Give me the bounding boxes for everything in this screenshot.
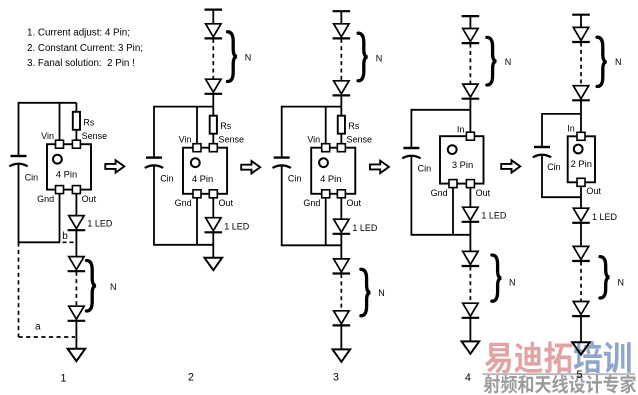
IC U5 "2 Pin" (circuit 5) xyxy=(567,123,601,196)
brace N (circuit 4 bottom) xyxy=(492,255,516,301)
svg-text:5: 5 xyxy=(577,369,583,381)
wire: bottom rail (circuit 3) xyxy=(281,244,342,246)
svg-text:3 Pin: 3 Pin xyxy=(452,159,473,170)
brace N (circuit 3 top) xyxy=(358,33,382,81)
svg-text:Sense: Sense xyxy=(347,135,373,145)
svg-text:Vin: Vin xyxy=(41,131,54,141)
svg-text:4 Pin: 4 Pin xyxy=(192,173,213,184)
capacitor Cin (circuit 5) xyxy=(533,147,561,172)
brace N (circuit 3 bottom) xyxy=(361,269,385,316)
wire: to ground (circuit 5) xyxy=(580,316,582,342)
arrow step 1 to 2 xyxy=(105,160,124,172)
wire: to ground (circuit 3) xyxy=(340,325,342,349)
wire: dashed left drop (circuit 1) xyxy=(18,242,20,337)
wire: top stub (circuit 3) xyxy=(340,11,342,24)
svg-text:b: b xyxy=(62,231,68,242)
wire: to ground (circuit 2) xyxy=(212,232,214,257)
svg-text:1 LED: 1 LED xyxy=(224,222,250,232)
wire: In riser (circuit 5) xyxy=(580,114,582,132)
svg-text:2. Constant Current: 3 Pin;: 2. Constant Current: 3 Pin; xyxy=(27,43,143,54)
svg-text:Out: Out xyxy=(476,188,491,198)
svg-text:Gnd: Gnd xyxy=(37,194,54,204)
svg-text:4: 4 xyxy=(465,372,471,384)
IC U4 "3 Pin" (circuit 4) xyxy=(431,125,491,199)
wire: into rail (circuit 3) xyxy=(340,95,342,106)
capacitor Cin (circuit 2) xyxy=(145,158,174,184)
svg-text:2 Pin: 2 Pin xyxy=(571,158,592,169)
wire: Vin riser (circuit 2) xyxy=(196,107,198,144)
arrow step 2 to 3 xyxy=(241,161,260,173)
wire: Cin to bottom rail (circuit 1) xyxy=(18,165,20,243)
wire: Gnd drop (circuit 3) xyxy=(325,198,327,246)
resistor Rs (circuit 1) xyxy=(73,103,95,141)
wire: circuit 1 top rail xyxy=(19,102,77,104)
note list (3 lines) xyxy=(27,28,143,70)
node a (circuit 1): dashed tap xyxy=(19,322,76,338)
LED D12 (circuit 4 top) xyxy=(463,29,478,42)
wire: circuit 2 top rail xyxy=(154,106,213,108)
supply bar (circuit 3 top) xyxy=(333,10,351,12)
wire: circuit 1 input drop to Cin xyxy=(18,102,20,156)
LED D20 (circuit 5) xyxy=(573,246,588,259)
wire: into rail (circuit 5) xyxy=(580,100,582,114)
LED D16 (circuit 4) xyxy=(463,303,478,316)
supply bar (circuit 5 top) xyxy=(572,14,590,16)
svg-text:1 LED: 1 LED xyxy=(592,212,618,222)
wire: Cin to bottom rail (circuit 3) xyxy=(281,166,283,245)
LED D19 "1 LED" (circuit 5) xyxy=(572,208,617,223)
wire: dashed chain (circuit 5 bottom) xyxy=(580,262,582,302)
svg-text:N: N xyxy=(110,282,117,292)
capacitor Cin (circuit 4) xyxy=(402,148,431,173)
brace N (circuit 5 top) xyxy=(597,37,621,86)
LED D11 (circuit 3) xyxy=(334,311,349,324)
brace N (circuit 5 bottom) xyxy=(600,257,624,298)
svg-text:1 LED: 1 LED xyxy=(87,218,113,228)
svg-text:2: 2 xyxy=(188,371,194,383)
wire: into rail (circuit 2) xyxy=(212,94,214,107)
ground (circuit 3) xyxy=(333,349,351,361)
supply bar (circuit 2 top) xyxy=(205,9,223,11)
wire: into rail (circuit 4) xyxy=(469,99,471,110)
wire: bottom rail solid (circuit 1) xyxy=(18,241,60,243)
svg-text:1: 1 xyxy=(61,373,67,385)
svg-text:4 Pin: 4 Pin xyxy=(56,169,77,180)
svg-text:3: 3 xyxy=(333,372,339,384)
LED D14 "1 LED" (circuit 4) xyxy=(462,207,507,222)
capacitor Cin (circuit 3) xyxy=(273,158,302,184)
wire: Gnd drop (circuit 4) xyxy=(452,188,454,235)
wire: top stub (circuit 5) xyxy=(580,15,582,28)
svg-text:1. Current adjust: 4 Pin;: 1. Current adjust: 4 Pin; xyxy=(27,28,130,39)
wire: to ground (circuit 1) xyxy=(75,321,77,349)
LED D17 (circuit 5 top) xyxy=(573,27,588,40)
LED D18 (circuit 5 top) xyxy=(573,86,588,99)
LED D5 (circuit 2 top) xyxy=(206,79,221,92)
wire: Vin riser (circuit 3) xyxy=(325,107,327,144)
svg-text:Sense: Sense xyxy=(219,135,245,145)
wire: Cin to bottom rail (circuit 4) xyxy=(410,157,412,235)
IC U1 "4 Pin" (circuit 1) xyxy=(37,131,107,204)
svg-text:In: In xyxy=(457,125,465,135)
wire: top stub (circuit 2) xyxy=(212,10,214,24)
ground (circuit 1) xyxy=(68,349,86,361)
wire: Out drop (circuit 4) xyxy=(469,188,471,208)
watermark logo text 易迪拓培训 xyxy=(485,341,631,373)
wire: chain segment (circuit 5) xyxy=(580,223,582,247)
wire: In riser (circuit 4) xyxy=(469,110,471,133)
ground (circuit 4) xyxy=(462,341,480,353)
wire: bottom rail (circuit 2) xyxy=(153,244,213,246)
svg-text:N: N xyxy=(376,53,383,63)
LED D3 (circuit 1) xyxy=(69,306,84,319)
IC U3 "4 Pin" (circuit 3) xyxy=(303,135,372,209)
svg-text:N: N xyxy=(505,57,512,67)
wire: Gnd drop (circuit 1) xyxy=(59,194,61,243)
svg-text:N: N xyxy=(618,278,625,288)
LED D21 (circuit 5) xyxy=(573,302,588,315)
node b (circuit 1): dashed tap xyxy=(62,231,75,242)
ground (circuit 5) xyxy=(572,342,590,354)
LED D6 "1 LED" (circuit 2) xyxy=(205,218,250,233)
wire: Out drop (circuit 3) xyxy=(340,198,342,219)
wire: to ground (circuit 4) xyxy=(469,318,471,342)
svg-text:Rs: Rs xyxy=(348,121,359,131)
wire: chain segment (circuit 4) xyxy=(469,222,471,252)
wire: circuit 4 top rail xyxy=(411,109,470,111)
brace N (circuit 1) xyxy=(87,261,117,312)
brace N (circuit 2 top) xyxy=(228,32,252,82)
LED D7 (circuit 3 top) xyxy=(334,24,349,37)
svg-text:Out: Out xyxy=(586,186,601,196)
resistor Rs (circuit 3) xyxy=(338,107,360,144)
svg-text:Rs: Rs xyxy=(83,117,94,127)
wire: drop to Cin (circuit 3) xyxy=(281,106,283,158)
wire: chain segment (circuit 3) xyxy=(340,234,342,259)
svg-text:Vin: Vin xyxy=(307,135,320,145)
svg-text:Sense: Sense xyxy=(82,131,108,141)
svg-text:Vin: Vin xyxy=(179,135,192,145)
svg-text:Out: Out xyxy=(347,198,362,208)
wire: Cin to bottom rail (circuit 5) xyxy=(541,156,543,197)
wire: drop to Cin (circuit 5) xyxy=(541,113,543,147)
wire: dashed chain (circuit 3 bottom) xyxy=(340,274,342,310)
svg-text:N: N xyxy=(245,52,252,62)
brace N (circuit 4 top) xyxy=(487,37,511,85)
LED D4 (circuit 2 top) xyxy=(206,24,221,37)
wire: bottom rail (circuit 5) xyxy=(541,196,581,198)
wire: top stub (circuit 4) xyxy=(469,16,471,28)
svg-text:Gnd: Gnd xyxy=(431,188,448,198)
wire: Cin to bottom rail (circuit 2) xyxy=(153,166,155,244)
ground (circuit 2) xyxy=(205,258,223,270)
wire: dashed chain (circuit 5 top) xyxy=(580,43,582,86)
supply bar (circuit 4 top) xyxy=(462,15,480,17)
svg-text:Out: Out xyxy=(82,194,97,204)
arrow step 4 to 5 xyxy=(501,160,520,172)
svg-text:N: N xyxy=(378,288,385,298)
svg-text:Cin: Cin xyxy=(288,173,302,183)
wire: dashed chain (circuit 4 bottom) xyxy=(469,267,471,303)
svg-text:4 Pin: 4 Pin xyxy=(320,173,341,184)
capacitor Cin (circuit 1) xyxy=(9,156,38,183)
wire: LED chain segment (circuit 1) xyxy=(75,230,77,256)
svg-text:Rs: Rs xyxy=(220,121,231,131)
LED D1 "1 LED" (circuit 1) xyxy=(68,216,113,231)
IC U2 "4 Pin" (circuit 2) xyxy=(175,135,244,209)
wire: dashed chain (circuit 3 top) xyxy=(340,39,342,81)
svg-text:N: N xyxy=(509,278,516,288)
LED D2 (circuit 1) xyxy=(69,257,84,270)
wire: dashed chain (circuit 2 top) xyxy=(212,39,214,79)
wire: dashed chain (circuit 4 top) xyxy=(469,44,471,84)
svg-text:Cin: Cin xyxy=(160,173,174,183)
svg-text:1 LED: 1 LED xyxy=(352,223,378,233)
wire: circuit 3 top rail xyxy=(282,106,342,108)
svg-text:Cin: Cin xyxy=(418,163,432,173)
wire: bottom rail (circuit 4) xyxy=(411,234,471,236)
wire: Out drop (circuit 1) xyxy=(75,194,77,216)
wire: Vin riser (circuit 1) xyxy=(59,103,61,141)
wire: Out drop (circuit 5) xyxy=(580,186,582,208)
wire: Out drop (circuit 2) xyxy=(212,198,214,218)
svg-text:Gnd: Gnd xyxy=(303,198,320,208)
LED D13 (circuit 4 top) xyxy=(463,84,478,97)
LED D8 (circuit 3 top) xyxy=(334,81,349,94)
svg-text:1 LED: 1 LED xyxy=(481,211,507,221)
wire: Gnd drop (circuit 2) xyxy=(196,198,198,245)
watermark tagline 射频和天线设计专家 xyxy=(484,375,636,394)
LED D9 "1 LED" (circuit 3) xyxy=(333,219,378,234)
wire: drop to Cin (circuit 2) xyxy=(153,106,155,158)
svg-text:N: N xyxy=(615,57,622,67)
wire: dashed chain (circuit 1) xyxy=(75,272,77,306)
LED D15 (circuit 4) xyxy=(463,251,478,264)
LED D10 (circuit 3) xyxy=(334,259,349,272)
svg-text:3. Fanal solution: 2 Pin !: 3. Fanal solution: 2 Pin ! xyxy=(27,58,135,69)
watermark divider line xyxy=(483,373,636,375)
wire: circuit 5 top rail xyxy=(542,113,581,115)
wire: drop to Cin (circuit 4) xyxy=(410,109,412,148)
resistor Rs (circuit 2) xyxy=(210,107,232,144)
svg-text:Cin: Cin xyxy=(25,173,39,183)
svg-text:a: a xyxy=(35,322,41,333)
svg-text:Cin: Cin xyxy=(547,162,561,172)
svg-text:Out: Out xyxy=(219,198,234,208)
svg-text:In: In xyxy=(567,123,575,133)
arrow step 3 to 4 xyxy=(370,161,389,173)
svg-text:Gnd: Gnd xyxy=(175,198,192,208)
